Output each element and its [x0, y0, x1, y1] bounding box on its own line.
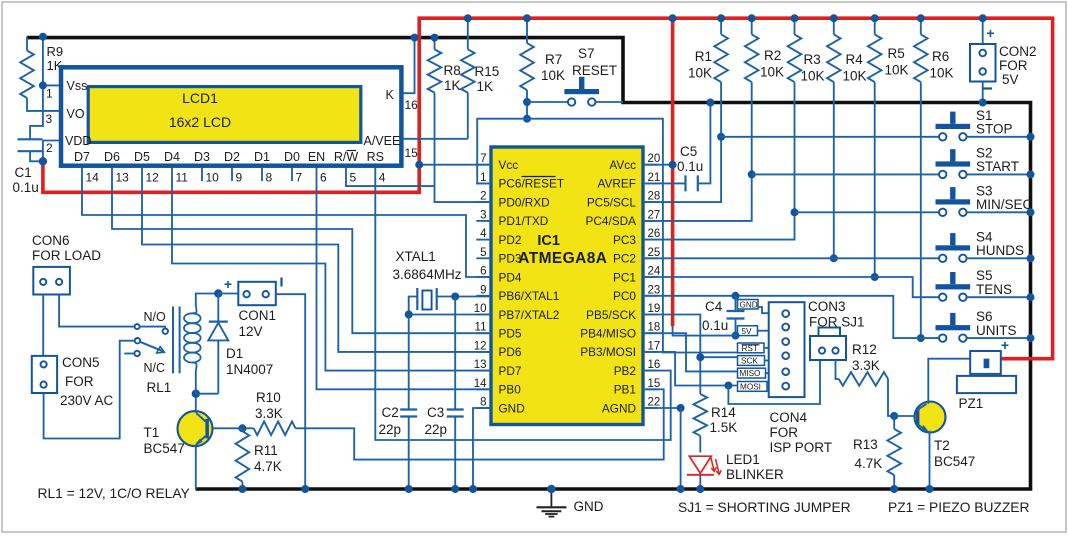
IC pin 22 AGND stub [643, 407, 658, 409]
svg-text:8: 8 [480, 397, 486, 409]
relay contact N/C [134, 351, 139, 356]
svg-text:D6: D6 [104, 150, 120, 164]
svg-text:Vss: Vss [67, 79, 88, 93]
resistor R15 [467, 18, 469, 49]
svg-text:C1: C1 [15, 165, 32, 180]
wire R1 to PC5/SCL [643, 82, 721, 202]
svg-text:CON2: CON2 [999, 44, 1037, 59]
wire pin8 GND [473, 408, 491, 489]
svg-text:PD2: PD2 [499, 233, 522, 247]
wire S3 row [795, 211, 939, 213]
svg-text:10K: 10K [760, 65, 784, 80]
relay RL1 coil [172, 307, 174, 374]
svg-text:MISO: MISO [740, 369, 761, 378]
node S4 gnd [1027, 254, 1035, 262]
wire 5V red drop to C4 [671, 18, 675, 326]
capacitor C4 [735, 296, 737, 311]
IC pin 1 PC6/RESET stub [476, 182, 491, 184]
svg-text:PZ1: PZ1 [959, 396, 984, 411]
label CON2 minus [983, 87, 992, 89]
svg-text:C2: C2 [382, 405, 399, 420]
IC pin 5 PD3 stub [476, 257, 491, 259]
resistor R9 [26, 37, 28, 51]
svg-text:PC2: PC2 [613, 252, 636, 266]
switch S3 MIN/SEC [936, 199, 971, 204]
wire S1 row [721, 136, 939, 138]
svg-text:R11: R11 [254, 443, 278, 458]
wire Vss/GND vertical [30, 37, 43, 140]
svg-text:XTAL1: XTAL1 [396, 249, 436, 264]
svg-text:1K: 1K [444, 78, 461, 93]
svg-text:16: 16 [405, 98, 419, 112]
svg-text:PD5: PD5 [499, 327, 522, 341]
svg-text:R7: R7 [545, 52, 562, 67]
IC pin 6 PD4 stub [476, 276, 491, 278]
svg-text:14: 14 [474, 378, 487, 390]
piezo buzzer PZ1 [970, 351, 1001, 374]
wire LCD stub x262 [261, 168, 263, 181]
svg-text:PD0/RXD: PD0/RXD [499, 195, 550, 209]
wire S4 row / PC2 [643, 257, 939, 259]
svg-text:9: 9 [480, 284, 486, 296]
svg-text:VDD: VDD [65, 134, 91, 148]
svg-text:PB3/MOSI: PB3/MOSI [580, 345, 636, 359]
svg-text:16x2 LCD: 16x2 LCD [169, 114, 231, 130]
switch S5 TENS [936, 284, 971, 289]
wire D4 to PD7 [172, 168, 491, 371]
connector CON6 [33, 267, 70, 295]
LCD LCD1 body [61, 67, 401, 165]
svg-text:PB2: PB2 [614, 364, 636, 378]
svg-text:10K: 10K [801, 69, 825, 84]
wire D6 to PD5 [112, 168, 491, 334]
svg-text:STOP: STOP [976, 122, 1013, 137]
svg-text:D4: D4 [164, 150, 180, 164]
net label MISO box [738, 368, 766, 378]
node T1 base junction [238, 424, 246, 432]
svg-text:T1: T1 [144, 425, 160, 440]
svg-text:+: + [1001, 337, 1009, 353]
svg-text:R8: R8 [444, 63, 461, 78]
node R2/S2 junction [748, 170, 756, 178]
svg-text:VO: VO [67, 107, 85, 121]
node R1/S1 junction [717, 133, 725, 141]
svg-text:RST: RST [742, 344, 758, 353]
svg-text:RL1: RL1 [147, 380, 172, 395]
node C4 bottom 5V [732, 332, 740, 340]
wire CON6 to CON5 [42, 295, 44, 356]
svg-text:LED1: LED1 [726, 452, 760, 467]
svg-text:PC4/SDA: PC4/SDA [586, 214, 637, 228]
svg-text:R14: R14 [711, 405, 736, 420]
svg-text:PB1: PB1 [614, 383, 636, 397]
node LED gnd [696, 485, 704, 493]
svg-text:T2: T2 [934, 438, 950, 453]
wire VDD stub [43, 141, 61, 162]
connector CON5 [32, 356, 57, 393]
resistor R4 [833, 18, 835, 34]
net label SCK box [738, 356, 765, 366]
node GND top-left junction [39, 33, 47, 41]
svg-text:PB5/SCK: PB5/SCK [586, 308, 636, 322]
svg-text:FOR LOAD: FOR LOAD [32, 248, 101, 263]
svg-text:R4: R4 [846, 52, 864, 67]
svg-text:D0: D0 [284, 150, 300, 164]
svg-text:R1: R1 [695, 49, 712, 64]
svg-text:R10: R10 [256, 390, 281, 405]
resistor R7 [526, 18, 528, 43]
svg-text:26: 26 [648, 228, 661, 240]
IC pin 16 PB2 stub [643, 370, 658, 372]
svg-text:R5: R5 [888, 46, 905, 61]
connector CON4 [769, 302, 805, 397]
capacitor C2 [408, 315, 410, 410]
wire R2 to PC4/SDA [643, 82, 752, 221]
resistor R11 [241, 428, 243, 431]
node R6/S6 junction [917, 334, 925, 342]
node R4/S4 junction [830, 254, 838, 262]
svg-text:1: 1 [480, 172, 486, 184]
svg-text:11: 11 [475, 322, 487, 334]
svg-text:IC1: IC1 [537, 233, 560, 249]
resistor R3 [794, 18, 796, 34]
switch S6 UNITS [936, 325, 971, 330]
svg-text:C4: C4 [705, 299, 723, 314]
node AGND junction [677, 404, 685, 412]
svg-text:D1: D1 [254, 150, 270, 164]
net label 5V box [738, 326, 758, 336]
wire K to GND [401, 38, 414, 94]
node R13 gnd [890, 485, 898, 493]
wire PB5/SCK to CON4 [643, 315, 700, 395]
wire LCD stub x202 [201, 168, 203, 181]
resistor R5 [874, 18, 876, 34]
svg-text:PD4: PD4 [499, 270, 522, 284]
svg-text:3.3K: 3.3K [255, 406, 283, 421]
switch S2 START [936, 161, 971, 166]
wire reset net to pin1 and CON4 RST [477, 119, 737, 353]
IC pin 27 PC4/SDA stub [643, 220, 658, 222]
svg-text:A/VEE: A/VEE [364, 134, 401, 148]
svg-text:ISP PORT: ISP PORT [770, 440, 833, 455]
relay contact N/O [135, 324, 140, 329]
svg-text:SCK: SCK [741, 357, 758, 366]
svg-text:3: 3 [46, 112, 53, 126]
node R7 top [523, 14, 531, 22]
node R7/S7 junction [523, 98, 531, 106]
svg-text:GND: GND [499, 401, 525, 415]
svg-text:3.6864MHz: 3.6864MHz [393, 267, 462, 282]
svg-text:4: 4 [379, 171, 386, 185]
resistor R1 [720, 18, 722, 34]
svg-text:FOR: FOR [999, 58, 1028, 73]
svg-text:GND: GND [740, 301, 758, 310]
svg-text:7: 7 [480, 153, 486, 165]
node coil top junction [214, 289, 222, 297]
node CON2 top [979, 14, 987, 22]
svg-text:10K: 10K [541, 68, 565, 83]
resistor R2 [751, 18, 753, 34]
svg-text:25: 25 [648, 247, 661, 259]
svg-text:PC6/RESET: PC6/RESET [499, 177, 565, 191]
svg-text:PD7: PD7 [499, 364, 522, 378]
wire S6 row / PC0 [643, 296, 939, 338]
node XTAL right junction [451, 293, 459, 301]
svg-text:S5: S5 [976, 268, 993, 283]
wire AGND to gnd [643, 407, 681, 409]
svg-text:R2: R2 [764, 48, 781, 63]
switch S1 STOP [936, 124, 971, 129]
switch S7 RESET [527, 101, 568, 103]
svg-text:4.7K: 4.7K [855, 456, 883, 471]
IC pin 24 PC1 stub [643, 276, 658, 278]
svg-text:17: 17 [648, 340, 661, 352]
IC pin 10 PB7/XTAL2 stub [476, 314, 491, 316]
wire R5 to PC1 [874, 82, 876, 277]
svg-text:PD6: PD6 [499, 345, 522, 359]
svg-text:PC1: PC1 [613, 270, 636, 284]
svg-text:Vcc: Vcc [499, 158, 519, 172]
svg-text:BC547: BC547 [144, 441, 185, 456]
wire PB7/XTAL2 row [409, 314, 491, 316]
svg-text:15: 15 [405, 146, 419, 160]
node R4 top [830, 14, 838, 22]
resistor R13 [893, 416, 895, 429]
wire S2 row [752, 173, 939, 175]
svg-text:10K: 10K [930, 66, 954, 81]
svg-text:10: 10 [206, 171, 220, 185]
svg-text:R3: R3 [804, 52, 821, 67]
transistor T1 BC547 [178, 411, 213, 446]
svg-text:CON5: CON5 [62, 355, 100, 370]
svg-text:5: 5 [480, 247, 486, 259]
IC pin 19 PB5/SCK stub [643, 314, 658, 316]
svg-text:2: 2 [480, 191, 486, 203]
svg-text:PC3: PC3 [613, 233, 636, 247]
switch S4 HUNDS [936, 245, 971, 250]
svg-text:BLINKER: BLINKER [726, 467, 784, 482]
svg-text:PC5/SCL: PC5/SCL [587, 195, 637, 209]
wire 5V red bus [43, 18, 1053, 359]
svg-text:CON1: CON1 [239, 308, 277, 323]
node R3 top [791, 14, 799, 22]
wire R/W branch [346, 168, 435, 186]
wire RS to PB2 [375, 168, 670, 440]
node R15 top [464, 14, 472, 22]
node CON2 bottom [979, 99, 987, 107]
IC U1 ATMEGA8A body [491, 147, 643, 425]
transistor T2 BC547 [915, 402, 946, 433]
svg-text:ATMEGA8A: ATMEGA8A [518, 250, 607, 267]
svg-text:11: 11 [176, 171, 189, 185]
svg-text:22: 22 [648, 397, 661, 409]
capacitor C1 [18, 138, 43, 140]
node R5/S5 junction [871, 273, 879, 281]
svg-text:10K: 10K [885, 63, 909, 78]
crystal XTAL1 [437, 296, 491, 298]
resistor R14 [694, 394, 708, 436]
svg-text:S1: S1 [976, 108, 993, 123]
svg-text:+: + [224, 276, 232, 292]
svg-text:0.1u: 0.1u [13, 180, 39, 195]
svg-text:0.1u: 0.1u [677, 159, 703, 174]
wire R4 to PC2 [833, 82, 835, 258]
resistor R10 [254, 422, 296, 436]
wire GND black bus [27, 38, 1031, 489]
svg-text:5V: 5V [1002, 72, 1019, 87]
capacitor C3 [454, 297, 456, 410]
wire T1 base [209, 427, 243, 429]
wire PB1 to R10/T1 base [296, 389, 664, 459]
wire PB3/MOSI to CON4 [643, 352, 738, 386]
wire D5 to PD6 [142, 168, 491, 352]
IC pin 14 PB0 stub [476, 388, 491, 390]
IC pin 15 PB1 stub [643, 388, 658, 390]
svg-text:MIN/SEC: MIN/SEC [976, 197, 1033, 212]
svg-text:START: START [976, 159, 1019, 174]
svg-text:R13: R13 [853, 437, 878, 452]
svg-text:7: 7 [296, 171, 303, 185]
svg-text:CON4: CON4 [770, 410, 808, 425]
svg-text:PZ1 = PIEZO BUZZER: PZ1 = PIEZO BUZZER [888, 500, 1029, 515]
svg-text:RS: RS [367, 150, 384, 164]
node VDD/5V junction [39, 157, 47, 165]
svg-text:13: 13 [474, 359, 487, 371]
svg-text:PB0: PB0 [499, 383, 522, 397]
node red branch [669, 14, 677, 22]
wire R3 to PC3 [643, 82, 795, 240]
resistor R8 [434, 38, 436, 50]
wire CON6 to N/O [59, 295, 135, 327]
jumper SJ1 cap [819, 328, 841, 337]
svg-text:5: 5 [350, 171, 357, 185]
node C2 gnd [405, 485, 413, 493]
IC pin 11 PD5 stub [476, 332, 491, 334]
node AGND gnd [677, 485, 685, 493]
node XTAL left junction [405, 311, 413, 319]
IC pin 23 PC0 stub [643, 295, 658, 297]
svg-text:C3: C3 [427, 405, 444, 420]
svg-text:0.1u: 0.1u [702, 318, 728, 333]
svg-text:12: 12 [474, 340, 487, 352]
wire EN to PB0 [317, 168, 492, 390]
svg-text:RESET: RESET [572, 63, 617, 78]
node S2 gnd [1027, 170, 1035, 178]
svg-text:FOR: FOR [770, 425, 799, 440]
svg-text:10K: 10K [688, 66, 712, 81]
IC pin 12 PD6 stub [476, 351, 491, 353]
wire LCD stub x292 [291, 168, 293, 181]
svg-text:9: 9 [236, 171, 243, 185]
LED LED1 [689, 456, 711, 473]
net label MOSI box [738, 382, 768, 392]
IC pin 26 PC3 stub [643, 239, 658, 241]
node C3 gnd [451, 485, 459, 493]
svg-text:EN: EN [308, 150, 325, 164]
svg-text:SJ1 = SHORTING JUMPER: SJ1 = SHORTING JUMPER [678, 500, 851, 515]
svg-text:18: 18 [648, 322, 661, 334]
wire R6 to S6 [920, 82, 922, 338]
IC pin 21 AVREF stub [643, 182, 658, 184]
node T1 collector junction [192, 390, 200, 398]
IC pin 9 PB6/XTAL1 stub [476, 295, 491, 297]
svg-text:PD3: PD3 [499, 252, 522, 266]
svg-text:4: 4 [480, 228, 487, 240]
svg-text:R6: R6 [932, 49, 949, 64]
node R1 top [717, 14, 725, 22]
net label RST box [738, 343, 765, 353]
wire Vcc to 5V [419, 164, 491, 166]
svg-text:22p: 22p [379, 422, 402, 437]
svg-text:N/O: N/O [144, 310, 167, 324]
svg-text:HUNDS: HUNDS [976, 243, 1024, 258]
node R2 top [748, 14, 756, 22]
svg-text:CON3: CON3 [808, 299, 846, 314]
node R8 top [431, 34, 439, 42]
svg-text:BC547: BC547 [934, 454, 975, 469]
node T2 base junction [890, 412, 898, 420]
svg-text:1N4007: 1N4007 [226, 362, 273, 377]
svg-text:19: 19 [648, 303, 661, 315]
svg-text:PC0: PC0 [613, 289, 636, 303]
svg-text:28: 28 [648, 191, 661, 203]
connector CON1 12V [218, 293, 238, 295]
svg-text:13: 13 [116, 171, 130, 185]
svg-text:D5: D5 [134, 150, 150, 164]
svg-text:1: 1 [46, 87, 53, 101]
node S1 gnd [1027, 133, 1035, 141]
node SCK/R14 junction [696, 353, 704, 361]
svg-text:3: 3 [480, 209, 486, 221]
LCD R/W overline [347, 150, 357, 152]
svg-text:12: 12 [146, 171, 160, 185]
svg-text:16: 16 [648, 359, 661, 371]
connector CON3 [810, 336, 846, 360]
IC pin 2 PD0/RXD stub [476, 201, 491, 203]
IC pin 28 PC5/SCL stub [643, 201, 658, 203]
node R3/S3 junction [791, 208, 799, 216]
node AVcc tap [669, 161, 677, 169]
svg-text:10: 10 [474, 303, 487, 315]
wire PC0 to C4 node [732, 292, 740, 300]
node S5 gnd [1027, 293, 1035, 301]
wire S5 row / PC1 [643, 277, 939, 297]
wire 5V into CON4 [673, 326, 738, 336]
node Vss junction [39, 81, 47, 89]
wire A/VEE to R15 [401, 138, 467, 140]
svg-text:RL1 = 12V, 1C/O RELAY: RL1 = 12V, 1C/O RELAY [38, 486, 190, 501]
svg-text:PD1/TXD: PD1/TXD [499, 214, 549, 228]
svg-text:UNITS: UNITS [976, 323, 1017, 338]
node C5 to GND [706, 99, 714, 107]
svg-text:R12: R12 [852, 342, 877, 357]
resistor R12 [836, 360, 839, 379]
svg-text:2: 2 [46, 141, 53, 155]
svg-text:4.7K: 4.7K [254, 459, 282, 474]
IC pin 18 PB4/MISO stub [643, 332, 658, 334]
node S3 gnd [1027, 208, 1035, 216]
svg-text:N/C: N/C [144, 361, 166, 375]
svg-text:S3: S3 [976, 183, 993, 198]
svg-text:12V: 12V [239, 324, 263, 339]
svg-text:22p: 22p [425, 422, 448, 437]
node Vcc tap [415, 161, 423, 169]
wire LCD stub x232 [231, 168, 233, 181]
svg-text:6: 6 [480, 266, 486, 278]
svg-text:1.5K: 1.5K [710, 420, 738, 435]
wire T2 base [894, 415, 914, 417]
svg-text:3.3K: 3.3K [852, 358, 880, 373]
